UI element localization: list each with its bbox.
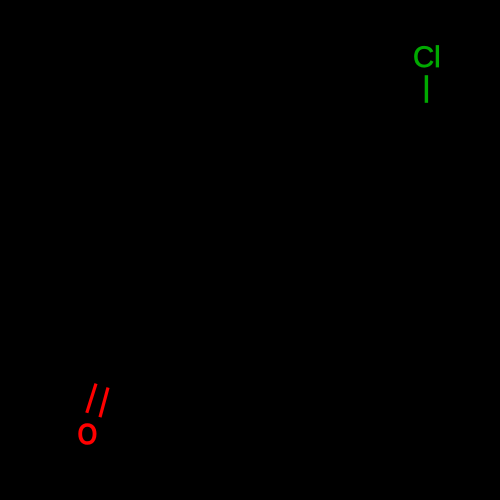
wire: C-Cl bond green half (425, 75, 428, 103)
svg-text:O: O (77, 417, 97, 451)
wire: C=O double bond red half (inner) (100, 388, 108, 418)
wire: C=O double bond red half (outer) (87, 384, 96, 413)
svg-text:Cl: Cl (413, 41, 441, 74)
